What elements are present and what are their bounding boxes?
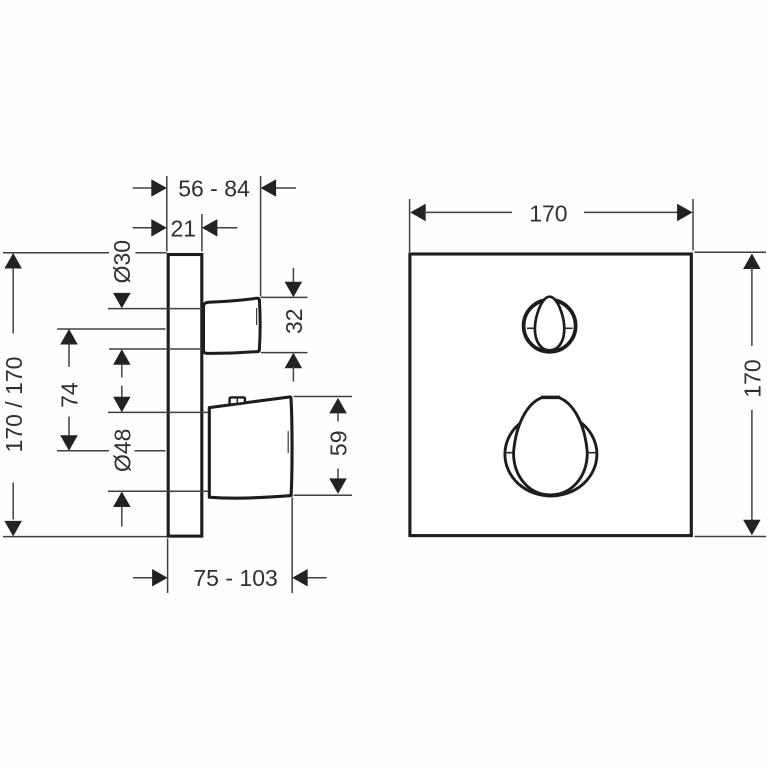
escutcheon plate (side view) (168, 255, 202, 537)
extension line x=693 (170 top right) (692, 199, 694, 251)
svg-text:75 - 103: 75 - 103 (193, 565, 277, 591)
large knob outer ring (front view) (505, 412, 597, 496)
extension line x=201.9 (21 right) (201, 214, 203, 252)
small knob right tick (564, 327, 572, 329)
dimension 170 (top horizontal) (410, 204, 426, 222)
dimension 75-103 (133, 577, 154, 579)
extension line x=166.8 (56-84 / 21 left) (166, 176, 168, 252)
large knob right tick (587, 452, 596, 454)
dimension 56-84 (133, 187, 153, 189)
svg-text:21: 21 (171, 216, 197, 242)
extension line x=409.6 (170 top left) (409, 199, 411, 252)
extension line x=260.6 (56-84 right) (260, 176, 262, 297)
dimension O48 (vertical) (121, 386, 123, 399)
svg-text:56 - 84: 56 - 84 (178, 176, 250, 202)
svg-text:170: 170 (529, 201, 567, 227)
tab divider (236, 398, 238, 404)
dimension 21 (133, 227, 153, 229)
dimension 59 (right of large knob) (294, 396, 353, 398)
small knob grip egg (front view) (535, 297, 564, 351)
extension line x=292.2 (75-103 right) (291, 498, 293, 594)
small knob left tick (527, 327, 535, 329)
large knob grip teardrop (front view) (514, 398, 588, 495)
leader line O48 bottom y=491.3 (108, 490, 210, 492)
svg-text:Ø48: Ø48 (110, 429, 136, 472)
leader line right top y=252.2 (695, 251, 767, 253)
large knob stop tab (front view) (541, 396, 560, 399)
leader line O30 top y=308.6 (108, 308, 204, 310)
svg-text:Ø30: Ø30 (109, 240, 135, 283)
dimension 170 (right vertical) (743, 254, 761, 270)
leader line 74 top y=329 (57, 328, 166, 330)
leader line O30 bottom y=349 (109, 348, 204, 350)
large knob inner edge line (287, 431, 289, 453)
large knob safety-stop tab (side view) (230, 397, 245, 404)
large knob left tick (504, 452, 513, 454)
leader line top (170/170 top, y=252.8) (3, 252, 109, 254)
leader line right bottom y=536.5 (695, 536, 767, 538)
svg-text:170 / 170: 170 / 170 (1, 357, 27, 453)
small knob (side view) (204, 298, 261, 353)
dimension 32 (right of small knob) (261, 296, 308, 298)
large knob (side view) (209, 397, 292, 498)
svg-text:32: 32 (281, 308, 307, 334)
leader line bottom (170/170 bottom, y=536.6) (3, 536, 167, 538)
small knob inner edge line (256, 308, 258, 325)
faceplate square (front view) (410, 254, 691, 536)
small knob outer ring (front view) (524, 300, 576, 352)
dimension 74 (vertical) (60, 329, 78, 345)
leader line O48 top y=412.4 (108, 411, 210, 413)
svg-text:74: 74 (57, 382, 83, 408)
leader line 74 bottom y=450.8 (57, 450, 109, 452)
svg-text:59: 59 (325, 431, 351, 457)
dimension 170/170 (far left vertical) (4, 253, 22, 269)
svg-text:170: 170 (739, 359, 765, 397)
extension line x=167.6 (75-103 left) (167, 539, 169, 594)
